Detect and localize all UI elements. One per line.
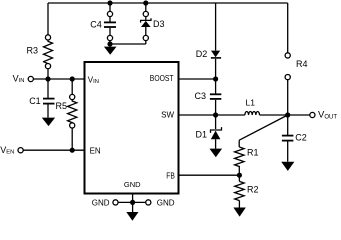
node VOUT terminal [310,112,315,117]
ground under C2 [281,162,294,171]
svg-text:VIN: VIN [13,73,25,84]
node VEN terminal [18,148,23,153]
inductor L1 [245,111,260,115]
wire BOOST pin [179,78,216,80]
capacitor C3 [210,79,221,115]
wire VOUT [288,114,310,116]
svg-text:VIN: VIN [88,75,99,85]
svg-text:C4: C4 [90,19,102,29]
node GND terminal right [146,200,151,205]
svg-text:R4: R4 [296,59,308,69]
node junction R3/VIN [45,76,50,81]
svg-text:R5: R5 [56,101,68,111]
svg-text:C1: C1 [29,96,41,106]
ground under C4/D3 [104,44,117,55]
node junction bus [107,41,112,46]
node GND terminal left [113,200,118,205]
ground under R2 [233,208,245,217]
resistor R3 [44,35,53,79]
wire VEN to IC [23,149,84,151]
svg-text:BOOST: BOOST [150,74,174,83]
node junction R5/VIN [70,76,75,81]
resistor R2 [235,175,244,207]
resistor R4 (unpopulated terminals) [285,3,290,115]
svg-text:R3: R3 [27,46,39,56]
svg-text:GND: GND [124,180,141,189]
svg-text:VOUT: VOUT [318,110,337,121]
resistor R5 [68,79,77,150]
wire top rail [48,2,288,4]
wire GND stub [132,194,134,202]
node junction FB/R1/R2 [237,173,242,178]
wire left drop to R3 [47,3,49,35]
diode D1 (schottky) [211,115,222,149]
IC regulator body [85,62,179,194]
wire FB pin [179,174,240,176]
svg-text:D2: D2 [196,49,208,59]
svg-text:D3: D3 [153,19,165,29]
svg-text:GND: GND [157,198,175,207]
svg-text:GND: GND [92,198,110,207]
svg-text:FB: FB [166,171,175,180]
svg-text:R2: R2 [247,185,259,195]
svg-text:VEN: VEN [0,145,14,156]
ground under D1 [210,149,223,158]
wire L1 to VOUT [260,114,288,116]
capacitor C4 [104,0,116,44]
node junction SW/C3/D1 [213,112,218,117]
wire GND bus [118,201,146,203]
resistor R1 [235,140,244,175]
svg-text:R1: R1 [247,148,259,158]
ground under C1 [42,118,55,127]
capacitor C2 [282,115,294,162]
diode D2 [211,3,221,79]
node junction VOUT [285,112,290,117]
node junction GND [130,200,135,205]
node junction BOOST/C3 [213,76,218,81]
svg-text:D1: D1 [196,130,208,140]
wire SW pin [179,114,245,116]
svg-text:SW: SW [161,111,174,120]
wire C4/D3 ground bus [110,43,146,45]
wire diagonal VOUT to R1 [239,115,288,140]
svg-text:C3: C3 [195,91,207,101]
svg-text:C2: C2 [295,133,307,143]
node VIN terminal [28,76,33,81]
svg-text:EN: EN [90,146,101,155]
ground under GND bus [126,202,138,220]
diode D3 (zener) [141,0,151,44]
wire VIN to IC [33,78,84,80]
node junction R5/EN [70,148,75,153]
capacitor C1 [43,79,55,118]
svg-text:L1: L1 [246,98,256,108]
